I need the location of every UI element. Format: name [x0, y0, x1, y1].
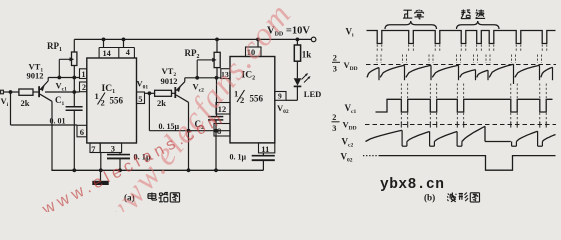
threshold dashed line row2: [366, 64, 556, 66]
svg-text:9012: 9012: [161, 76, 178, 86]
svg-text:2: 2: [332, 113, 336, 122]
wire Vc1 down to C1: [73, 78, 75, 107]
wire VT2 emitter to pin13: [185, 77, 221, 79]
wire bottom input to pin6: [11, 124, 78, 126]
potentiometer RP1 wiper arrow: [59, 58, 70, 60]
wire 1k to LED: [296, 61, 298, 78]
wire ground bottom rail: [51, 169, 263, 171]
wire pin5 to 2k: [145, 92, 155, 94]
pin 9 box: [275, 92, 286, 101]
transistor VT1 emitter: [40, 81, 48, 90]
svg-text:556: 556: [110, 96, 124, 106]
potentiometer RP1 top wire: [73, 39, 75, 52]
potentiometer RP2 body: [214, 52, 220, 67]
svg-text:3: 3: [333, 65, 337, 74]
junction RP1 bottom node: [72, 76, 76, 80]
junction rail VT2 collector: [187, 168, 191, 172]
pin 2 box: [80, 82, 87, 92]
svg-text:7: 7: [91, 144, 96, 154]
potentiometer RP2 wiper arrow: [197, 59, 212, 61]
pin 1 box: [80, 69, 87, 79]
wire Vc1 to pin2: [45, 91, 80, 93]
junction RP2 bottom node: [215, 76, 219, 80]
wire rail to pin4: [123, 39, 125, 47]
junction node Vc1: [72, 90, 76, 94]
pin 12 box: [216, 103, 230, 115]
LED diode: [294, 78, 302, 86]
wire rail to pin10: [257, 39, 259, 47]
waveform Vc1 capacitor trace: [367, 68, 379, 78]
waveform Vi trace: [367, 31, 556, 44]
junction rail pin7: [99, 168, 103, 172]
svg-text:2k: 2k: [21, 98, 30, 108]
wire RP2 wiper down: [196, 60, 198, 78]
op-amp timer IC2 body: [230, 57, 275, 143]
svg-text:(b): (b): [424, 193, 435, 203]
label chaosu: [462, 10, 464, 15]
transistor VT2 base bar: [174, 87, 176, 98]
wire VT2 collector down: [188, 102, 190, 170]
svg-text:4: 4: [126, 48, 130, 57]
wire RP1 bottom to node: [73, 66, 75, 78]
dashed alignment lines rows2-4: [400, 84, 402, 99]
capacitor 0.1u IC1 plates: [107, 154, 130, 156]
label zhengchang: [404, 9, 412, 11]
pin 6 box: [77, 125, 87, 137]
waveform Vc1 square trace: [376, 99, 553, 112]
wire RP2 bottom: [216, 68, 218, 78]
pin 5 box: [137, 92, 145, 104]
brace overspeed section: [457, 21, 500, 29]
junction RP1 wiper node: [57, 76, 61, 80]
terminal input Vi: [1, 90, 4, 94]
waveform Vo2 trace: [363, 155, 379, 157]
svg-text:3: 3: [332, 124, 336, 133]
wire 2k to VT1 base: [33, 91, 38, 93]
wire VDD top rail: [74, 38, 311, 40]
threshold dashed line row4: [365, 124, 556, 126]
wire node down to C2: [216, 78, 218, 116]
svg-text:6: 6: [80, 127, 84, 137]
wire rail to pin14: [103, 39, 105, 47]
svg-text:2: 2: [333, 54, 337, 63]
wire C2 down: [215, 120, 217, 170]
wire node to pin1: [48, 77, 79, 79]
junction bottom C2: [214, 129, 218, 133]
capacitor C1 bottom wire: [73, 110, 75, 170]
junction rail C2: [214, 168, 218, 172]
junction top rail to pin4: [122, 38, 126, 42]
svg-text:LED: LED: [304, 89, 321, 99]
wire Vo1 bottom across: [149, 130, 230, 132]
svg-text:ybx8.cn: ybx8.cn: [380, 177, 444, 193]
junction top rail to pin14: [102, 38, 106, 42]
transistor VT2 emitter: [176, 82, 185, 91]
wire 2k to VT2 base: [172, 92, 175, 94]
wire pin11 down: [262, 153, 264, 155]
resistor 1k body: [294, 45, 300, 61]
resistor 2k mid body: [155, 90, 172, 96]
svg-text:5: 5: [138, 94, 142, 104]
junction top rail to 1k: [296, 38, 300, 42]
wire input node down: [10, 92, 12, 125]
svg-text:2k: 2k: [157, 98, 166, 108]
svg-text:1: 1: [95, 91, 99, 101]
svg-text:11: 11: [261, 144, 269, 154]
svg-text:556: 556: [250, 94, 264, 104]
pin 3 box: [100, 143, 121, 153]
potentiometer RP1 body: [72, 52, 77, 66]
svg-text:2: 2: [82, 83, 86, 92]
pin 11 box: [259, 143, 275, 153]
wire pin3 down: [119, 153, 121, 155]
brace normal section: [385, 21, 437, 29]
svg-text:9: 9: [278, 92, 282, 101]
junction rail C1: [72, 168, 76, 172]
dashed alignment lines rows1-2: [376, 45, 378, 53]
svg-text:3: 3: [111, 144, 115, 154]
terminal VDD: [311, 37, 316, 42]
pin 14 box: [98, 48, 100, 59]
transistor VT1 collector: [40, 94, 52, 101]
svg-text:2: 2: [101, 98, 105, 108]
transistor VT1 base bar: [38, 86, 40, 97]
wire rail to 1k: [296, 39, 298, 45]
wire cap 0.1u down: [119, 158, 121, 170]
wire VT1 collector down: [51, 101, 53, 170]
capacitor C2 plates: [208, 116, 223, 118]
ground symbol: [100, 170, 102, 181]
transistor VT2 collector: [176, 95, 188, 102]
svg-text:14: 14: [103, 49, 111, 58]
wire Vo1 down: [148, 93, 150, 130]
pin 10 box: [246, 47, 262, 57]
svg-text:1: 1: [82, 70, 86, 79]
wire pin7 down: [100, 153, 102, 171]
svg-text:9012: 9012: [27, 71, 44, 81]
junction bottom VT2 collector: [187, 129, 191, 133]
capacitor 0.1u IC2 plates: [252, 155, 275, 157]
capacitor C1 plates: [66, 106, 83, 108]
junction node Vo1: [148, 91, 152, 95]
potentiometer RP2 top wire: [216, 39, 218, 52]
wire RP1 wiper down: [58, 59, 60, 77]
junction top rail to RP2: [215, 38, 219, 42]
junction top rail to pin10: [256, 38, 260, 42]
wire input to 2k: [3, 91, 19, 93]
op-amp timer IC1 body: [87, 58, 137, 143]
pin 7 box: [90, 143, 100, 153]
wire LED to pin9: [296, 86, 298, 100]
LED arrows: [302, 75, 307, 80]
svg-text:2: 2: [240, 95, 244, 105]
junction rail cap1: [118, 168, 122, 172]
svg-text:0. 1μ: 0. 1μ: [230, 153, 247, 162]
waveform Vc2 trace: [366, 130, 403, 141]
pin 13 box: [221, 69, 230, 79]
svg-text:1k: 1k: [302, 50, 312, 60]
junction RP2 wiper node: [195, 76, 199, 80]
pin 8 box: [214, 124, 230, 137]
wire cap2 to rail: [262, 160, 264, 170]
junction input node: [9, 90, 13, 94]
resistor 2k input body: [19, 89, 33, 95]
